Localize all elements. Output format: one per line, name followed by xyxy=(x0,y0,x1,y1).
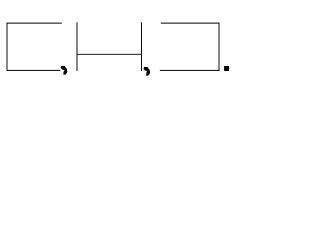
wire left vertical of H xyxy=(76,22,78,71)
comma 2 xyxy=(144,67,151,76)
wire top of shape 1 xyxy=(7,22,62,24)
wire right vertical of H xyxy=(141,22,143,71)
wire bottom of shape 3 xyxy=(160,69,220,71)
H shape (turnstile pair) xyxy=(77,22,142,71)
wire top of shape 3 xyxy=(161,22,220,24)
left open-right square bracket shape xyxy=(7,23,62,71)
wire right vertical of shape 3 xyxy=(218,23,220,71)
period xyxy=(224,66,229,71)
right open-left square bracket shape xyxy=(160,23,220,71)
wire left vertical of shape 1 xyxy=(6,23,8,71)
wire crossbar of H xyxy=(77,53,142,55)
comma 1 xyxy=(61,66,68,75)
wire bottom of shape 1 xyxy=(7,69,61,71)
